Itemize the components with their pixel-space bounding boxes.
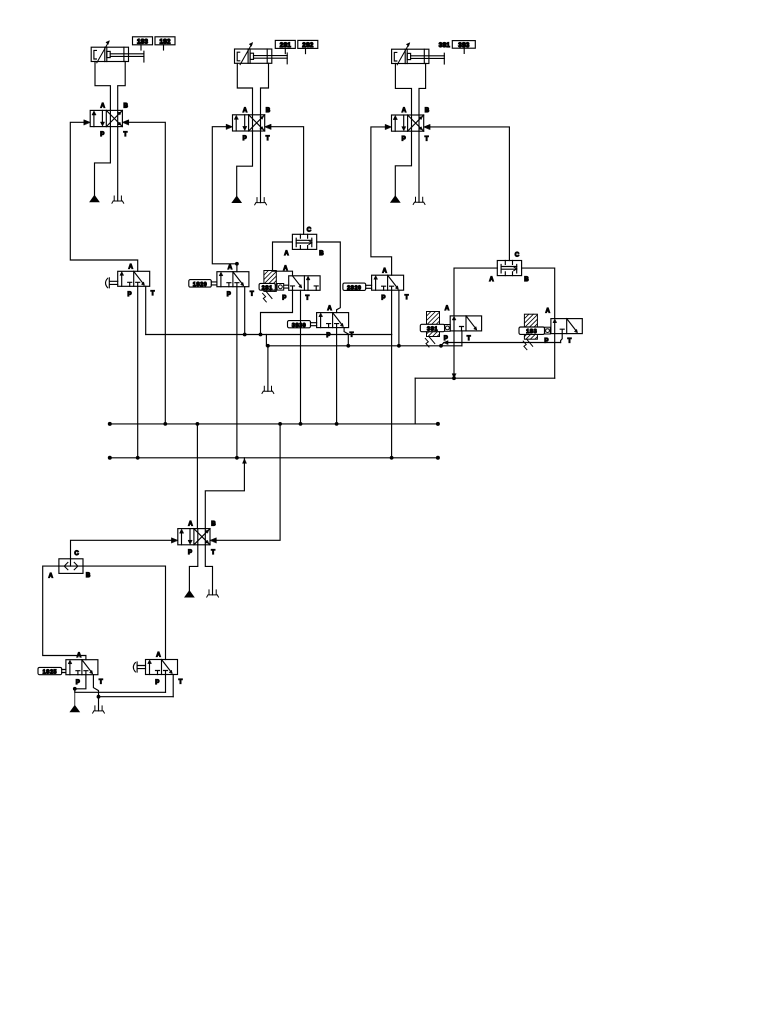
svg-text:A: A <box>49 573 54 580</box>
svg-text:P: P <box>381 295 385 302</box>
exhaust bottom-left <box>93 706 105 713</box>
svg-text:A: A <box>284 250 289 257</box>
ruler tick 3S3 <box>463 48 465 53</box>
wire shuttle 0V2 port B to valve 0S1 port A <box>83 566 166 659</box>
pressure source main <box>185 591 194 597</box>
pilot arrow valve 1V1 right <box>122 120 128 125</box>
wire valve 1S25 port T to exhaust rail <box>93 675 98 697</box>
exhaust manifold line H1 <box>146 334 392 336</box>
pressure source bottom-left <box>70 689 79 712</box>
junction dot H2 / exhaust link <box>439 344 443 348</box>
junction dot supply rail / source <box>73 687 77 691</box>
svg-text:1S2: 1S2 <box>159 39 171 46</box>
ruler tick 2S1 <box>284 48 286 53</box>
shuttle valve 3V2 (OR) <box>489 252 529 283</box>
svg-text:A: A <box>77 652 82 659</box>
junction dot H2 / valve 3S3 T <box>346 344 350 348</box>
wire valve 3V1 port P to pressure source <box>395 131 411 196</box>
wire valve 1V1 right pilot down to bus line 1 <box>129 122 166 424</box>
svg-text:3S1: 3S1 <box>439 42 451 49</box>
roller valve 3S1 <box>445 325 451 332</box>
svg-text:T: T <box>568 338 572 345</box>
wire line L3 down to bus line 1 <box>414 378 416 424</box>
junction dot exhaust rail / exhaust stem <box>97 695 101 699</box>
svg-text:C: C <box>74 550 79 557</box>
wire shuttle 3V2 port A to valve 3S1 port A <box>454 268 497 316</box>
svg-text:A: A <box>445 305 450 312</box>
shuttle valve 0V2 (AND) <box>49 550 91 579</box>
svg-text:1S25: 1S25 <box>43 670 57 676</box>
wire valve 3S1 port P to line L3 <box>453 331 455 378</box>
pilot arrow valve 3V1 left <box>385 124 391 129</box>
svg-text:P: P <box>243 135 247 142</box>
wire cyl1 right port to valve 1V1 port B <box>118 62 126 111</box>
svg-text:A: A <box>228 264 233 271</box>
junction dot bus1 / valve 3S3 P <box>335 422 339 426</box>
label box valve 2S1 <box>259 283 275 291</box>
supply rail bottom-left <box>75 690 166 692</box>
junction dot L3 / valve 3S1 P with flow arrow <box>452 376 456 380</box>
ruler label box 1S2 <box>155 37 175 46</box>
svg-text:P: P <box>128 291 132 298</box>
valve 3S1 (3/2-way roller, actuated open) <box>444 305 482 342</box>
svg-text:P: P <box>227 291 231 298</box>
junction dot bus2 / valve 1S1 P <box>136 456 140 460</box>
bus line 2 end dot left <box>108 456 112 460</box>
wire shuttle 2V2 port B to valve 3S3 port A <box>317 242 341 313</box>
svg-text:C: C <box>307 227 312 234</box>
exhaust manifold line H2 <box>266 345 462 347</box>
svg-text:A: A <box>129 264 134 271</box>
pilot arrow valve 3V1 right <box>424 124 430 129</box>
wire valve 1S1 port P down to bus line 2 <box>137 286 139 458</box>
ruler label box 2S2 <box>298 40 318 49</box>
valve 0S1 (3/2-way pushbutton) <box>133 652 182 686</box>
wire exhaust stem bottom-left <box>98 697 100 711</box>
valve 2V1 (4/2-way double pilot) <box>233 107 271 142</box>
wire valve 2S2 port P down through H1 end to bus line 2 <box>391 290 393 458</box>
wire valve 1V1 port P to pressure source <box>95 127 111 196</box>
ruler label box 1S3 <box>133 37 153 46</box>
junction dot bus1 / valve 1V1 right pilot <box>163 422 167 426</box>
label box valve 2S10 <box>519 327 545 335</box>
svg-text:2S2: 2S2 <box>302 42 314 49</box>
valve 1S1 (3/2-way pushbutton) <box>106 264 155 298</box>
label box valve 1S2 <box>189 280 217 288</box>
cylinder 1A (double-acting) <box>91 41 144 63</box>
svg-text:1S3: 1S3 <box>526 329 537 335</box>
wire shuttle 3V2 port B to valve 2S10 port A <box>522 268 555 319</box>
svg-text:2S20: 2S20 <box>347 285 361 291</box>
wire cyl2 right port to valve 2V1 port B <box>261 63 269 115</box>
svg-text:A: A <box>156 652 161 659</box>
wire valve 2V1 port P to pressure source <box>237 131 253 196</box>
junction dot bus2 / valve 1S2 P <box>235 456 239 460</box>
svg-text:B: B <box>86 572 91 579</box>
wire cyl3 left port to valve 3V1 port A <box>395 64 411 116</box>
valve 1S2 (3/2-way roller limit) <box>217 264 254 298</box>
svg-text:T: T <box>467 335 471 342</box>
svg-text:P: P <box>76 679 80 686</box>
exhaust main <box>207 590 219 597</box>
svg-text:A: A <box>402 107 407 114</box>
exhaust group 2 <box>255 198 267 205</box>
main valve 0V1 (4/2-way double pilot) <box>178 521 216 556</box>
svg-text:T: T <box>425 135 429 142</box>
wire valve 2S1 port P to exhaust line H1 <box>261 290 293 334</box>
wire valve 3S3 port P down to bus line 1 <box>336 328 338 424</box>
valve 3S3 (3/2-way roller limit) <box>317 305 354 339</box>
valve 3V1 (4/2-way double pilot) <box>392 107 430 142</box>
pilot arrow main valve left <box>171 538 177 543</box>
roller valve 2S1 <box>277 284 289 291</box>
cam block valve 3S1 <box>425 312 439 347</box>
ruler label box 3S3 <box>452 41 475 50</box>
junction dot H2 / valve 2S2 T <box>397 344 401 348</box>
wire cyl1 left port to valve 1V1 port A <box>95 62 110 111</box>
wire valve 2V1 left pilot from valve 1S2 port A <box>212 127 237 272</box>
wire main valve port T to exhaust <box>205 545 212 595</box>
pilot arrow valve 1V1 left <box>84 120 90 125</box>
wire bus1 down to main valve port A <box>196 424 198 529</box>
svg-text:A: A <box>489 276 494 283</box>
junction dot H1 / valve 2S1 P <box>259 333 263 337</box>
pilot arrow valve 2V1 right <box>265 124 271 129</box>
svg-text:2S1: 2S1 <box>262 285 273 291</box>
shuttle valve 2V2 (OR) <box>284 227 324 257</box>
ruler tick 1S2 <box>163 45 165 50</box>
ruler tick 1S3 <box>140 45 142 50</box>
bus line 2 end dot right <box>436 456 440 460</box>
ruler tick 2S2 <box>305 48 307 53</box>
junction dot bus1 / main valve right pilot <box>278 422 282 426</box>
cylinder 3A (double-acting) <box>392 43 445 65</box>
svg-text:1S3: 1S3 <box>137 39 149 46</box>
wire valve 2S1 port T down to bus line 1 <box>300 290 302 424</box>
flow arrow main valve B wire at bus2 <box>242 459 246 464</box>
svg-text:T: T <box>179 678 183 685</box>
svg-text:B: B <box>319 250 324 257</box>
pressure source group 1 <box>90 195 99 201</box>
wire valve 3S3 port T to exhaust line H2 <box>344 328 348 346</box>
wire bus1 down to main valve right pilot <box>216 424 280 540</box>
svg-text:C: C <box>515 252 520 259</box>
cam block valve 2S10 <box>523 314 537 349</box>
cam block valve 2S1 <box>263 271 277 302</box>
wire valve 2S10 port P to line L3 <box>554 334 556 379</box>
exhaust on line H2 <box>262 386 274 393</box>
svg-text:B: B <box>211 521 216 528</box>
exhaust group 3 <box>413 197 425 204</box>
junction dot bus1 / main valve A <box>196 422 200 426</box>
svg-text:B: B <box>425 107 430 114</box>
svg-text:A: A <box>327 305 332 312</box>
wire valve 2V1 right pilot to shuttle 2V2 port C <box>271 127 304 235</box>
valve 1V1 (4/2-way double pilot) <box>90 103 128 138</box>
wire valve 1S25 port P to supply rail <box>75 675 86 689</box>
svg-text:A: A <box>101 103 106 110</box>
wire valve 2S10 port T to exhaust link <box>561 334 563 343</box>
svg-text:A: A <box>546 308 551 315</box>
label box valve 3S1 <box>420 324 444 332</box>
svg-text:T: T <box>405 294 409 301</box>
wire H2 stem down to exhaust <box>267 346 269 391</box>
valve 2S2 (3/2-way roller limit) <box>372 267 409 301</box>
wire valve 2S2 port T to exhaust line H2 <box>398 290 400 346</box>
pilot arrow main valve right <box>210 538 216 543</box>
pressure source group 2 <box>232 196 241 202</box>
svg-text:T: T <box>124 131 128 138</box>
bus line 2 <box>110 457 438 459</box>
svg-text:3S30: 3S30 <box>292 323 306 329</box>
junction dot bus1 / valve 2S1 T <box>299 422 303 426</box>
valve 2S1 (3/2-way roller, actuated) <box>282 265 320 301</box>
pressure source group 3 <box>391 196 400 202</box>
valve 2S10 (3/2-way roller, actuated open) <box>544 308 582 345</box>
exhaust group 1 <box>112 196 124 203</box>
wire valve 1S1 port T to exhaust line H1 <box>145 286 147 334</box>
pilot arrow valve 2V1 left <box>226 124 232 129</box>
svg-text:A: A <box>283 265 288 272</box>
wire main valve port P to pressure source <box>189 545 197 591</box>
wire shuttle 0V2 port A to valve 1S25 port A <box>43 566 86 660</box>
svg-text:A: A <box>188 521 193 528</box>
flow arrow on exhaust link <box>444 341 449 345</box>
junction dot H2 exhaust stem <box>266 344 270 348</box>
svg-text:3S1: 3S1 <box>427 327 438 333</box>
svg-text:P: P <box>188 549 192 556</box>
svg-text:P: P <box>282 294 286 301</box>
supply line L3 <box>415 377 555 379</box>
svg-text:P: P <box>402 135 406 142</box>
svg-text:T: T <box>250 291 254 298</box>
svg-text:P: P <box>326 332 330 339</box>
wire cyl3 right port to valve 3V1 port B <box>419 64 426 116</box>
svg-text:B: B <box>266 107 271 114</box>
svg-text:B: B <box>524 276 529 283</box>
wire valve 3S1 port T to exhaust line H2 end <box>461 331 463 346</box>
wire valve 1V1 port T to exhaust <box>117 127 119 201</box>
wire valve 3V1 left pilot from valve 2S2 port A <box>371 127 392 275</box>
junction dot valve 1S2 A corner <box>235 262 239 266</box>
junction dot bus2 / valve 2S2 P <box>390 456 394 460</box>
svg-text:B: B <box>124 103 129 110</box>
svg-text:1S20: 1S20 <box>193 282 207 288</box>
exhaust rail bottom-left <box>99 696 174 698</box>
roller valve 2S10 <box>545 327 551 334</box>
svg-text:T: T <box>266 135 270 142</box>
wire valve 1V1 left pilot to valve 1S1 port A <box>70 122 137 271</box>
wire valve 3V1 port T to exhaust <box>418 131 420 202</box>
exhaust link line from valve 2S10 T to H2 <box>441 343 561 346</box>
svg-text:P: P <box>100 131 104 138</box>
junction dot H1 / valve 1S2 T <box>243 333 247 337</box>
ruler label box 2S1 <box>275 40 295 49</box>
cylinder 2A (double-acting) <box>235 43 288 65</box>
wire valve 1S2 port P down to bus line 2 <box>236 287 238 458</box>
svg-text:T: T <box>211 549 215 556</box>
bus line 1 end dot left <box>108 422 112 426</box>
wire valve 2V1 port T to exhaust <box>260 131 262 203</box>
svg-text:T: T <box>151 290 155 297</box>
wire supply rail to valve 0S1 port P <box>165 675 167 693</box>
svg-text:T: T <box>99 679 103 686</box>
wire valve 3V1 right pilot to shuttle 3V2 port C <box>430 127 509 261</box>
svg-text:P: P <box>544 338 548 345</box>
svg-text:T: T <box>350 332 354 339</box>
wire valve 1S2 port T to exhaust line H1 <box>244 287 246 335</box>
svg-text:P: P <box>155 679 159 686</box>
label box valve 3S3 <box>288 321 317 329</box>
bus line 1 <box>110 423 438 425</box>
label box valve 2S2 <box>343 283 372 291</box>
valve 1S25 (3/2-way limit) <box>66 652 103 686</box>
svg-text:A: A <box>382 267 387 274</box>
wire shuttle 2V2 port A to valve 2S1 port A <box>273 242 293 276</box>
wire bus2 to main valve port B <box>205 458 244 529</box>
wire H1 drop to exhaust line H2 <box>265 335 267 346</box>
bus line 1 end dot right <box>436 422 440 426</box>
label box valve 1S25 <box>38 667 66 675</box>
wire cyl2 left port to valve 2V1 port A <box>237 63 252 115</box>
wire exhaust rail to valve 0S1 port T <box>172 675 174 697</box>
svg-text:T: T <box>306 294 310 301</box>
svg-text:A: A <box>243 107 248 114</box>
wire shuttle 0V2 port C to main valve left pilot <box>71 540 172 559</box>
